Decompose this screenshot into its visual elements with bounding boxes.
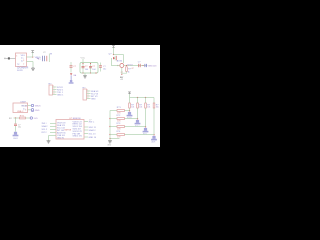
svg-text:1k: 1k bbox=[128, 72, 130, 74]
svg-text:N?18: N?18 bbox=[127, 65, 133, 67]
svg-text:104: 104 bbox=[85, 69, 88, 71]
svg-text:GND1: GND1 bbox=[13, 138, 18, 140]
svg-text:10k: 10k bbox=[139, 107, 142, 109]
svg-text:104: 104 bbox=[92, 69, 95, 71]
svg-text:470: 470 bbox=[117, 113, 120, 115]
svg-text:10k: 10k bbox=[147, 107, 150, 109]
svg-text:5: 5 bbox=[16, 55, 17, 57]
svg-text:GND: GND bbox=[91, 98, 96, 100]
svg-text:C?: C? bbox=[89, 120, 91, 122]
svg-text:GND 1: GND 1 bbox=[57, 94, 64, 96]
svg-text:BM?28: BM?28 bbox=[65, 129, 72, 131]
svg-text:SDA 2: SDA 2 bbox=[42, 125, 49, 128]
svg-text:SOP8: SOP8 bbox=[17, 70, 23, 72]
svg-text:SCL 2: SCL 2 bbox=[42, 129, 49, 131]
svg-text:SDA 12: SDA 12 bbox=[89, 129, 97, 132]
svg-text:GND 14: GND 14 bbox=[89, 137, 97, 139]
svg-text:GND: GND bbox=[107, 145, 112, 147]
svg-text:47: 47 bbox=[131, 68, 133, 70]
svg-text:VBUS: VBUS bbox=[35, 106, 41, 108]
svg-text:10u: 10u bbox=[18, 126, 21, 128]
svg-text:470: 470 bbox=[117, 129, 120, 131]
svg-text:GND123: GND123 bbox=[148, 66, 157, 68]
svg-text:470: 470 bbox=[117, 137, 120, 139]
svg-text:4: 4 bbox=[87, 97, 88, 99]
svg-text:INT 2: INT 2 bbox=[42, 132, 48, 134]
svg-text:2: 2 bbox=[23, 63, 24, 65]
svg-text:2: 2 bbox=[25, 110, 26, 112]
svg-text:10k: 10k bbox=[131, 107, 134, 109]
svg-text:3: 3 bbox=[23, 60, 24, 62]
svg-text:10k: 10k bbox=[156, 107, 159, 109]
svg-text:USB-C: USB-C bbox=[17, 111, 24, 113]
svg-text:4: 4 bbox=[53, 93, 54, 95]
svg-text:SDO 11: SDO 11 bbox=[89, 127, 97, 129]
svg-text:3V3 I: 3V3 I bbox=[42, 123, 47, 125]
svg-text:GND: GND bbox=[35, 110, 40, 112]
svg-text:AO34: AO34 bbox=[117, 59, 123, 62]
svg-text:10u: 10u bbox=[103, 69, 106, 71]
svg-text:1: 1 bbox=[25, 105, 26, 107]
svg-text:470: 470 bbox=[117, 121, 120, 123]
svg-text:SCL 13: SCL 13 bbox=[89, 133, 97, 135]
svg-text:+12: +12 bbox=[120, 79, 123, 81]
svg-text:GND 91: GND 91 bbox=[57, 137, 65, 139]
svg-text:SDA1: SDA1 bbox=[127, 117, 132, 120]
svg-text:GND2 191: GND2 191 bbox=[73, 136, 83, 138]
